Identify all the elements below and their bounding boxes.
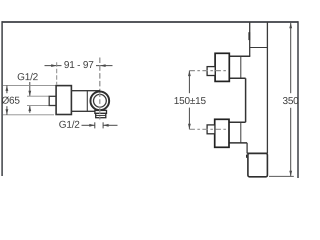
lower valve block bottom edge bbox=[227, 142, 247, 144]
bottom outlet box notch bbox=[246, 155, 248, 158]
lower valve block top edge bbox=[228, 121, 245, 123]
upper handle knob (front view) bbox=[215, 53, 229, 81]
dimension 91-97 dim line left segment with arrow bbox=[45, 64, 62, 67]
handle knob inner circle bbox=[94, 94, 107, 107]
handle knob outer circle (left view) bbox=[90, 92, 109, 111]
valve body joint line bbox=[86, 91, 88, 112]
svg-text:350: 350 bbox=[282, 96, 299, 107]
upper handle stub bbox=[207, 67, 215, 76]
centerline inside knob circle bbox=[99, 92, 101, 110]
outlet G1/2 dim right arrow bbox=[103, 124, 117, 127]
vertical centerline of handle (left view) bbox=[99, 58, 101, 92]
inlet stub dimension top arrow bbox=[28, 82, 31, 96]
svg-text:G1/2: G1/2 bbox=[17, 72, 39, 83]
upper valve block top edge bbox=[228, 55, 250, 57]
frame top border bbox=[2, 21, 299, 23]
diameter 65 dim lower arrow bbox=[6, 106, 9, 115]
column left edge upper section (front view) bbox=[249, 22, 251, 56]
outlet dim right tick bbox=[102, 122, 104, 128]
bottom outlet box bbox=[248, 153, 268, 176]
dimension 350 upper segment with arrow bbox=[289, 23, 292, 93]
upper handle centerline (front view) bbox=[189, 70, 227, 72]
svg-text:150±15: 150±15 bbox=[174, 96, 207, 107]
extension line at wall face for 91-97 bbox=[56, 62, 58, 84]
diameter 65 bottom extension line bbox=[3, 114, 54, 116]
dimension 150+-15 lower arrow bbox=[188, 108, 191, 130]
valve body top outline bbox=[71, 90, 100, 92]
inlet stub top extension line bbox=[27, 95, 49, 97]
upper valve block inner line bbox=[240, 56, 242, 78]
lower handle stub bbox=[207, 125, 215, 134]
outlet thread mid line bbox=[96, 115, 106, 117]
frame right border bbox=[297, 21, 299, 178]
dimension 350 lower segment with arrow bbox=[289, 108, 292, 176]
outlet thread stub bbox=[96, 113, 106, 117]
350 bottom extension line bbox=[269, 175, 294, 177]
upper valve block bottom edge bbox=[227, 77, 245, 79]
outlet collar below knob bbox=[95, 110, 107, 113]
column right edge (front view) bbox=[266, 22, 268, 153]
column joint line upper bbox=[250, 47, 268, 49]
column joint sleeve tick bbox=[248, 32, 250, 40]
dimension 150+-15 upper arrow bbox=[188, 71, 191, 94]
outlet G1/2 dim left arrow bbox=[82, 124, 95, 127]
diameter 65 top extension line bbox=[3, 84, 56, 86]
svg-text:Ø65: Ø65 bbox=[1, 96, 20, 107]
lower valve block inner line bbox=[240, 122, 242, 143]
inlet stub bottom extension line bbox=[27, 105, 49, 107]
column left edge middle section bbox=[245, 78, 247, 122]
lower handle centerline (front view) bbox=[189, 128, 227, 130]
lower handle knob (front view) bbox=[215, 119, 229, 147]
frame left border bbox=[1, 21, 3, 176]
column bottom joint line bbox=[247, 152, 267, 154]
escutcheon flange (left view) bbox=[56, 86, 71, 115]
svg-text:91 - 97: 91 - 97 bbox=[64, 60, 94, 71]
column left edge lower section bbox=[246, 143, 248, 154]
diameter 65 dim upper arrow bbox=[6, 85, 9, 93]
valve body bottom outline bbox=[71, 110, 100, 112]
centerline through outlet (left view) bbox=[99, 110, 101, 120]
dimension 91-97 dim line right segment with arrow bbox=[96, 64, 113, 67]
svg-text:G1/2: G1/2 bbox=[59, 120, 81, 131]
outlet dim left tick bbox=[94, 122, 96, 128]
wall inlet stub (left view) bbox=[49, 96, 56, 105]
inlet stub dimension bottom arrow bbox=[28, 106, 31, 113]
